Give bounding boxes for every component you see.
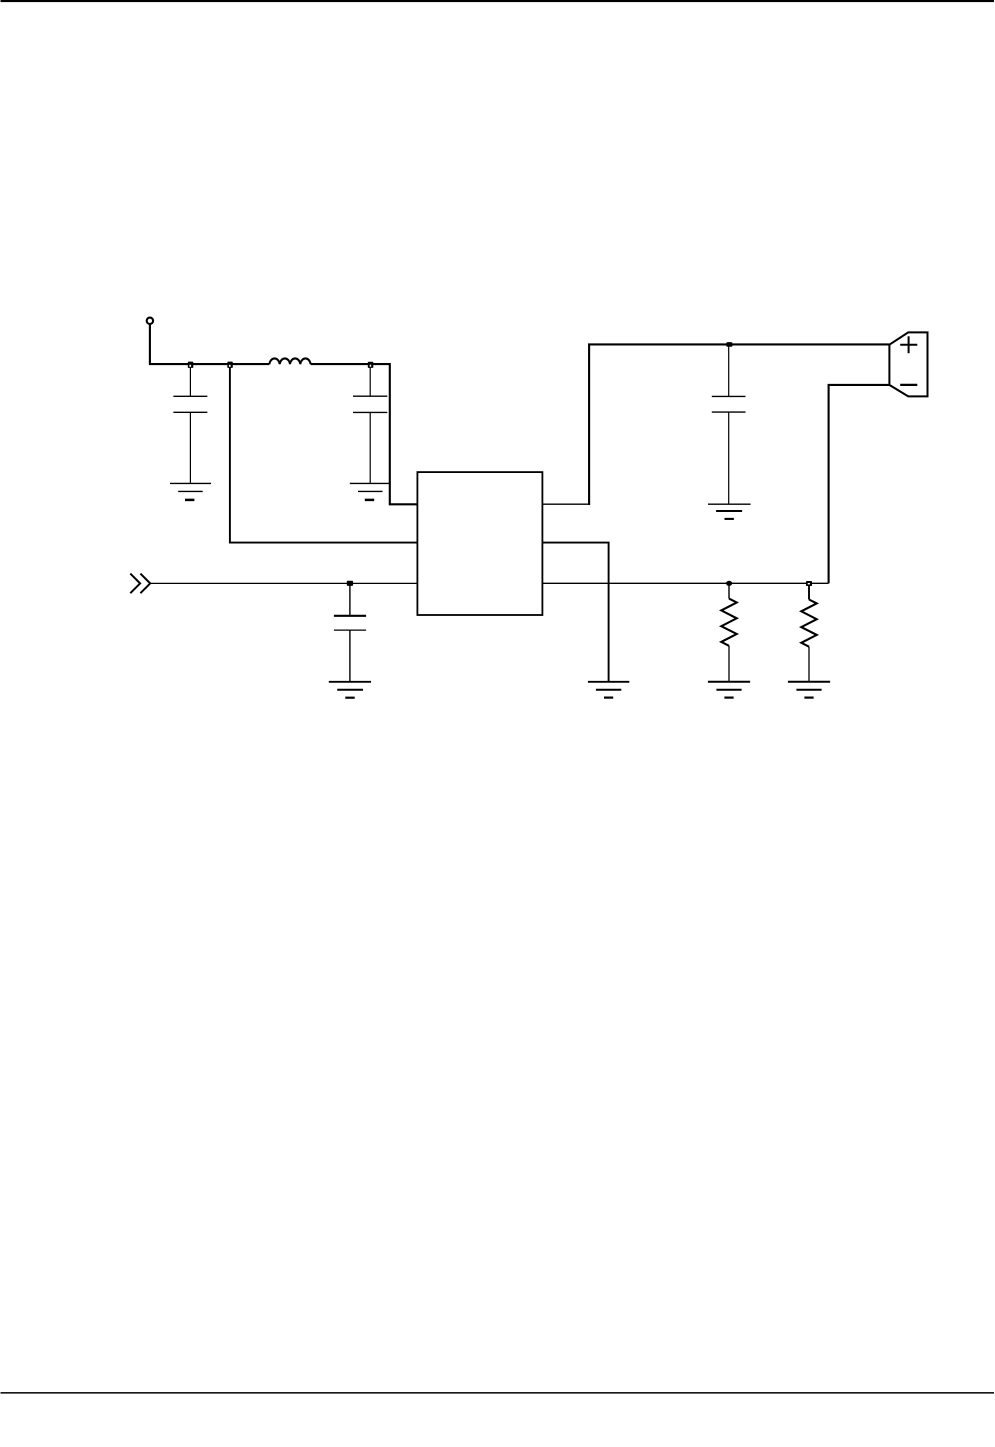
- wire: inductor to corner, down to IC pin (VIN): [311, 364, 418, 504]
- wire: IC ground pin to ground drop: [542, 543, 608, 682]
- ground under R2: [788, 682, 830, 698]
- wire: terminal down to VIN rail, rail to inductor: [150, 324, 270, 364]
- junction node (filled dot) at R1 tap: [726, 581, 732, 586]
- minus label on J1: [900, 384, 917, 386]
- ground under R1: [708, 682, 750, 698]
- ground under C2: [350, 483, 391, 500]
- junction node (square) at R2 tap: [806, 581, 812, 586]
- junction node (square) at enable tap: [227, 362, 233, 368]
- ground at IC ground pin: [588, 682, 629, 698]
- capacitor C1: [173, 364, 207, 483]
- input terminal (open circle): [147, 318, 153, 324]
- ground under C4: [329, 682, 371, 698]
- page footer rule: [1, 1392, 995, 1394]
- capacitor C2: [353, 364, 387, 483]
- capacitor C4 (input bypass): [334, 583, 366, 681]
- junction node (square) at C2 tap: [368, 362, 374, 368]
- resistor R1: [721, 583, 736, 682]
- wire: IC sense pin along bottom rail to minus riser: [542, 582, 828, 584]
- wire: output riser and VOUT rail to connector plus: [589, 344, 889, 505]
- wire: enable tap down and over to IC pin 2: [230, 366, 418, 542]
- input chevron (off-page connector): [130, 574, 150, 594]
- inductor L1: [269, 358, 310, 364]
- IC U1 (regulator): [417, 472, 542, 615]
- junction node (filled square) at C4 tap: [347, 581, 353, 586]
- wire: minus riser up and over to connector minus: [829, 385, 890, 583]
- battery connector J1 (outline): [889, 332, 927, 396]
- resistor R2: [801, 586, 816, 682]
- ground under C1: [170, 483, 211, 500]
- wire: IC output pin to riser: [542, 503, 589, 505]
- capacitor C3 (output): [712, 344, 746, 504]
- plus label on J1: [900, 336, 917, 353]
- page header rule: [1, 0, 995, 2]
- ground under C3: [708, 504, 751, 519]
- wire: input line to IC pin 3: [150, 582, 417, 584]
- junction node (square) at C1 tap: [188, 362, 194, 368]
- junction node (filled dot) at C3 tap: [726, 342, 732, 347]
